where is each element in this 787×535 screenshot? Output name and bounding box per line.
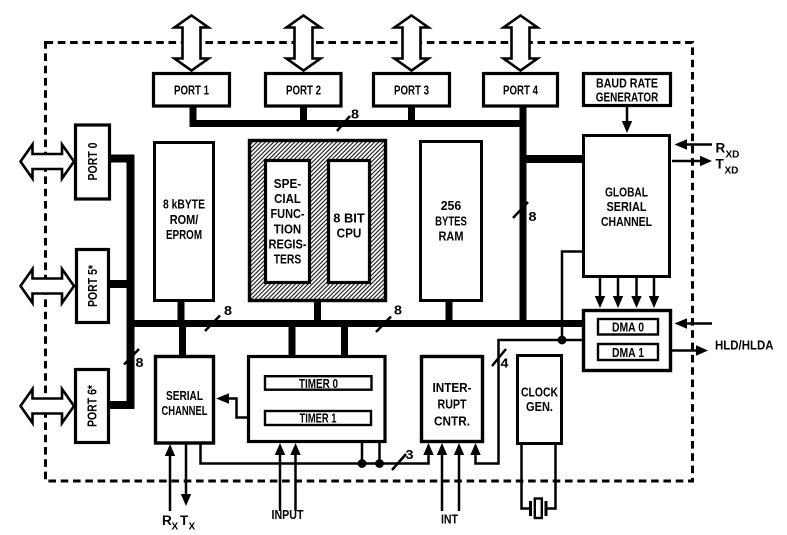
wire: PORT4 vertical bus [520,104,527,327]
wire: timer stub right [341,326,348,356]
wire: HLD input [687,322,712,325]
svg-text:BYTES: BYTES [435,213,467,228]
svg-text:X: X [189,522,196,533]
svg-text:TIMER 1: TIMER 1 [300,410,337,425]
wire: INT line 2 [458,454,461,511]
arrowhead INPUT 2 [290,443,300,455]
block TIMER 0 [265,376,372,391]
bus width slash 8 (main bus right) [376,304,402,333]
arrowhead baud to GSC [622,121,632,133]
svg-text:SPE-: SPE- [274,176,301,191]
svg-text:PORT 4: PORT 4 [503,83,539,98]
wire: GSC to DMA arrow 1 [599,278,602,297]
svg-text:PORT 1: PORT 1 [174,83,209,98]
wire: crystal right lead [548,444,556,509]
wire: GSC to DMA arrow 4 [653,278,656,297]
label RX TX [162,513,196,533]
arrowhead into serial channel [216,393,229,403]
arrowhead HLDA [696,345,708,355]
svg-text:RUPT: RUPT [438,397,467,412]
block GLOBAL SERIAL CHANNEL [584,136,670,277]
svg-text:XD: XD [725,166,739,177]
junction dot timer left [358,459,367,468]
block DMA 1 [598,344,658,360]
svg-text:R: R [162,513,172,528]
arrowhead GSC-DMA 1 [595,296,605,308]
arrowhead into interrupt controller pin4 [470,443,480,455]
block INTERRUPT CNTR [422,357,483,442]
svg-text:8 BIT: 8 BIT [333,210,365,225]
wire: serial channel stub [179,326,186,356]
bus width slash 8 (main bus left) [205,304,232,331]
wire: PORT2 stub [300,104,307,121]
svg-text:CIAL: CIAL [274,191,301,206]
svg-text:DMA 0: DMA 0 [612,320,644,335]
svg-text:8 kBYTE: 8 kBYTE [163,197,205,212]
svg-text:X: X [172,522,179,533]
label TXD [716,157,739,177]
block PORT 2 [266,74,342,107]
svg-text:SERIAL: SERIAL [607,199,647,214]
junction dot timer right [375,459,384,468]
svg-text:INTER-: INTER- [433,380,472,395]
block CLOCK GEN [518,356,562,444]
wire: TX output [185,444,188,495]
wire: PORT3 stub [408,104,415,121]
block DMA [584,311,671,371]
wire: GSC to DMA net [562,252,582,341]
wire: left vertical bus with PORT0 and PORT6 stubs [110,159,131,406]
svg-text:CLOCK: CLOCK [521,385,558,400]
wire: ROM stub [178,300,185,321]
dashed system boundary [46,43,693,482]
bus width slash 8 (top bus) [337,108,359,132]
svg-text:3: 3 [406,448,414,462]
svg-text:R: R [716,141,726,156]
svg-text:CHANNEL: CHANNEL [162,403,208,418]
wire: DMA to interrupt controller net [476,340,583,464]
arrowhead GSC-DMA 2 [613,296,623,308]
wire: INPUT line 2 [294,454,297,511]
wire: HLDA output [672,349,697,352]
arrowhead GSC-DMA 3 [631,296,641,308]
wire: timer output drop left [361,443,364,464]
wire: baud rate generator to GSC [626,107,629,122]
svg-text:8: 8 [529,210,537,224]
svg-text:CPU: CPU [337,225,362,240]
block TIMERS [249,357,386,442]
block 256 BYTES RAM [421,142,482,301]
wire: TXD output [672,160,701,163]
bus width slash 4 (DMA-interrupt wire) [492,349,509,371]
block DMA 0 [598,319,658,335]
svg-text:8: 8 [136,356,144,370]
svg-text:BAUD RATE: BAUD RATE [596,76,658,91]
block BAUD RATE GENERATOR [584,74,671,106]
bidirectional port arrow top 2 [287,16,321,71]
wire: timer1 to serial channel [227,399,264,418]
svg-text:TIMER 0: TIMER 0 [299,376,338,391]
bidirectional port arrow left PORT0 [21,145,75,179]
wire: RX input [169,455,172,511]
svg-text:PORT 0: PORT 0 [85,143,100,181]
svg-text:ROM/: ROM/ [170,212,199,227]
svg-text:PORT 3: PORT 3 [394,83,429,98]
bus width slash 8 (left bus) [124,349,144,370]
svg-text:8: 8 [224,304,232,318]
block TIMER 1 [265,410,371,425]
block 8 BIT CPU [329,161,370,283]
arrowhead RXD [675,139,688,149]
svg-text:8: 8 [394,304,402,318]
wire: CPU block stub [314,300,321,321]
wire: crystal left lead [522,444,530,509]
wire: GSC to DMA arrow 2 [617,278,620,297]
arrowhead RX [165,444,175,456]
block PORT 6* [76,370,109,443]
bidirectional port arrow top 4 [504,16,538,71]
svg-text:EPROM: EPROM [166,227,202,242]
svg-text:FUNC-: FUNC- [271,206,305,221]
block PORT 5* [77,250,109,323]
wire: GSC to DMA arrow 3 [635,278,638,297]
block PORT 3 [374,74,450,107]
svg-text:INT: INT [441,512,458,527]
wire: serial channel to interrupt controller net [201,444,429,464]
svg-text:PORT 2: PORT 2 [286,83,321,98]
bus width slash 8 (port4 bus) [513,202,537,224]
svg-text:GEN.: GEN. [526,399,553,414]
arrowhead TXD [700,156,712,166]
crystal Y1 [531,499,547,519]
wire: RAM stub [446,300,453,321]
svg-text:TERS: TERS [274,252,302,267]
svg-text:HLD/HLDA: HLD/HLDA [715,338,774,353]
svg-text:REGIS-: REGIS- [269,236,307,251]
wire: RXD input [687,143,712,146]
bidirectional port arrow top 1 [175,16,209,71]
svg-text:TION: TION [274,221,302,236]
bidirectional port arrow left PORT5 [21,269,75,303]
bidirectional port arrow left PORT6 [21,389,75,423]
wire: timer stub left [289,326,296,356]
wire: PORT5 stub [110,280,131,288]
svg-text:INPUT: INPUT [272,507,304,522]
svg-text:GENERATOR: GENERATOR [596,90,659,105]
arrowhead INT 1 [437,443,447,455]
svg-text:XD: XD [726,150,740,161]
bidirectional port arrow top 3 [395,16,429,71]
svg-text:DMA 1: DMA 1 [612,345,644,360]
svg-text:8: 8 [351,108,359,122]
svg-text:GLOBAL: GLOBAL [605,184,648,199]
wire: INT line 1 [441,454,444,511]
svg-text:4: 4 [501,357,509,371]
svg-text:CNTR.: CNTR. [434,413,470,428]
arrowhead INT 2 [454,443,464,455]
block PORT 1 [154,74,230,107]
wire: top bus with PORT1 stub [193,104,523,124]
block PORT 0 [76,125,110,199]
svg-text:SERIAL: SERIAL [166,388,203,403]
block SERIAL CHANNEL [156,357,214,444]
block CPU core (hatched) [250,141,386,301]
arrowhead into interrupt controller pin1 [423,443,433,455]
block 8 kBYTE ROM/EPROM [155,143,214,301]
block SPECIAL FUNCTION REGISTERS [266,161,310,283]
arrowhead HLD [675,318,688,328]
junction dot GSC/DMA wire [558,336,567,345]
wire: main middle bus [127,320,583,327]
svg-text:PORT 5*: PORT 5* [85,264,100,307]
label RXD [716,141,740,161]
arrowhead GSC-DMA 4 [649,296,659,308]
svg-text:CHANNEL: CHANNEL [601,214,652,229]
svg-text:256: 256 [441,198,462,213]
bus width slash 3 (interrupt wire) [392,448,414,470]
svg-text:T: T [716,157,725,172]
svg-text:PORT 6*: PORT 6* [85,384,100,427]
block PORT 4 [484,74,558,107]
wire: bus stub to global serial channel [523,155,582,163]
arrowhead INPUT 1 [275,443,285,455]
svg-text:RAM: RAM [439,228,464,243]
wire: INPUT line 1 [279,454,282,511]
wire: timer output drop right [378,443,381,464]
arrowhead TX [181,494,191,506]
